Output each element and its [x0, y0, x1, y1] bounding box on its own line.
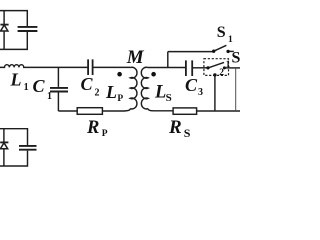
svg-text:C: C — [81, 74, 94, 94]
svg-text:2: 2 — [95, 88, 100, 99]
svg-text:R: R — [86, 118, 99, 138]
svg-text:1: 1 — [47, 91, 52, 102]
svg-text:3: 3 — [198, 87, 203, 98]
svg-text:1: 1 — [228, 35, 233, 45]
svg-text:R: R — [168, 117, 182, 138]
svg-text:C: C — [185, 75, 198, 95]
svg-text:P: P — [117, 94, 123, 104]
svg-text:S: S — [232, 49, 241, 66]
svg-text:P: P — [102, 129, 108, 139]
svg-text:M: M — [126, 47, 145, 68]
svg-text:S: S — [217, 24, 226, 41]
svg-text:S: S — [184, 126, 191, 140]
svg-text:1: 1 — [226, 59, 231, 69]
svg-text:L: L — [10, 70, 22, 90]
svg-text:2: 2 — [219, 68, 224, 78]
svg-text:L: L — [105, 82, 117, 102]
svg-text:1: 1 — [24, 82, 29, 93]
svg-text:S: S — [166, 92, 172, 104]
svg-text:L: L — [154, 83, 166, 103]
svg-text:C: C — [33, 76, 46, 96]
